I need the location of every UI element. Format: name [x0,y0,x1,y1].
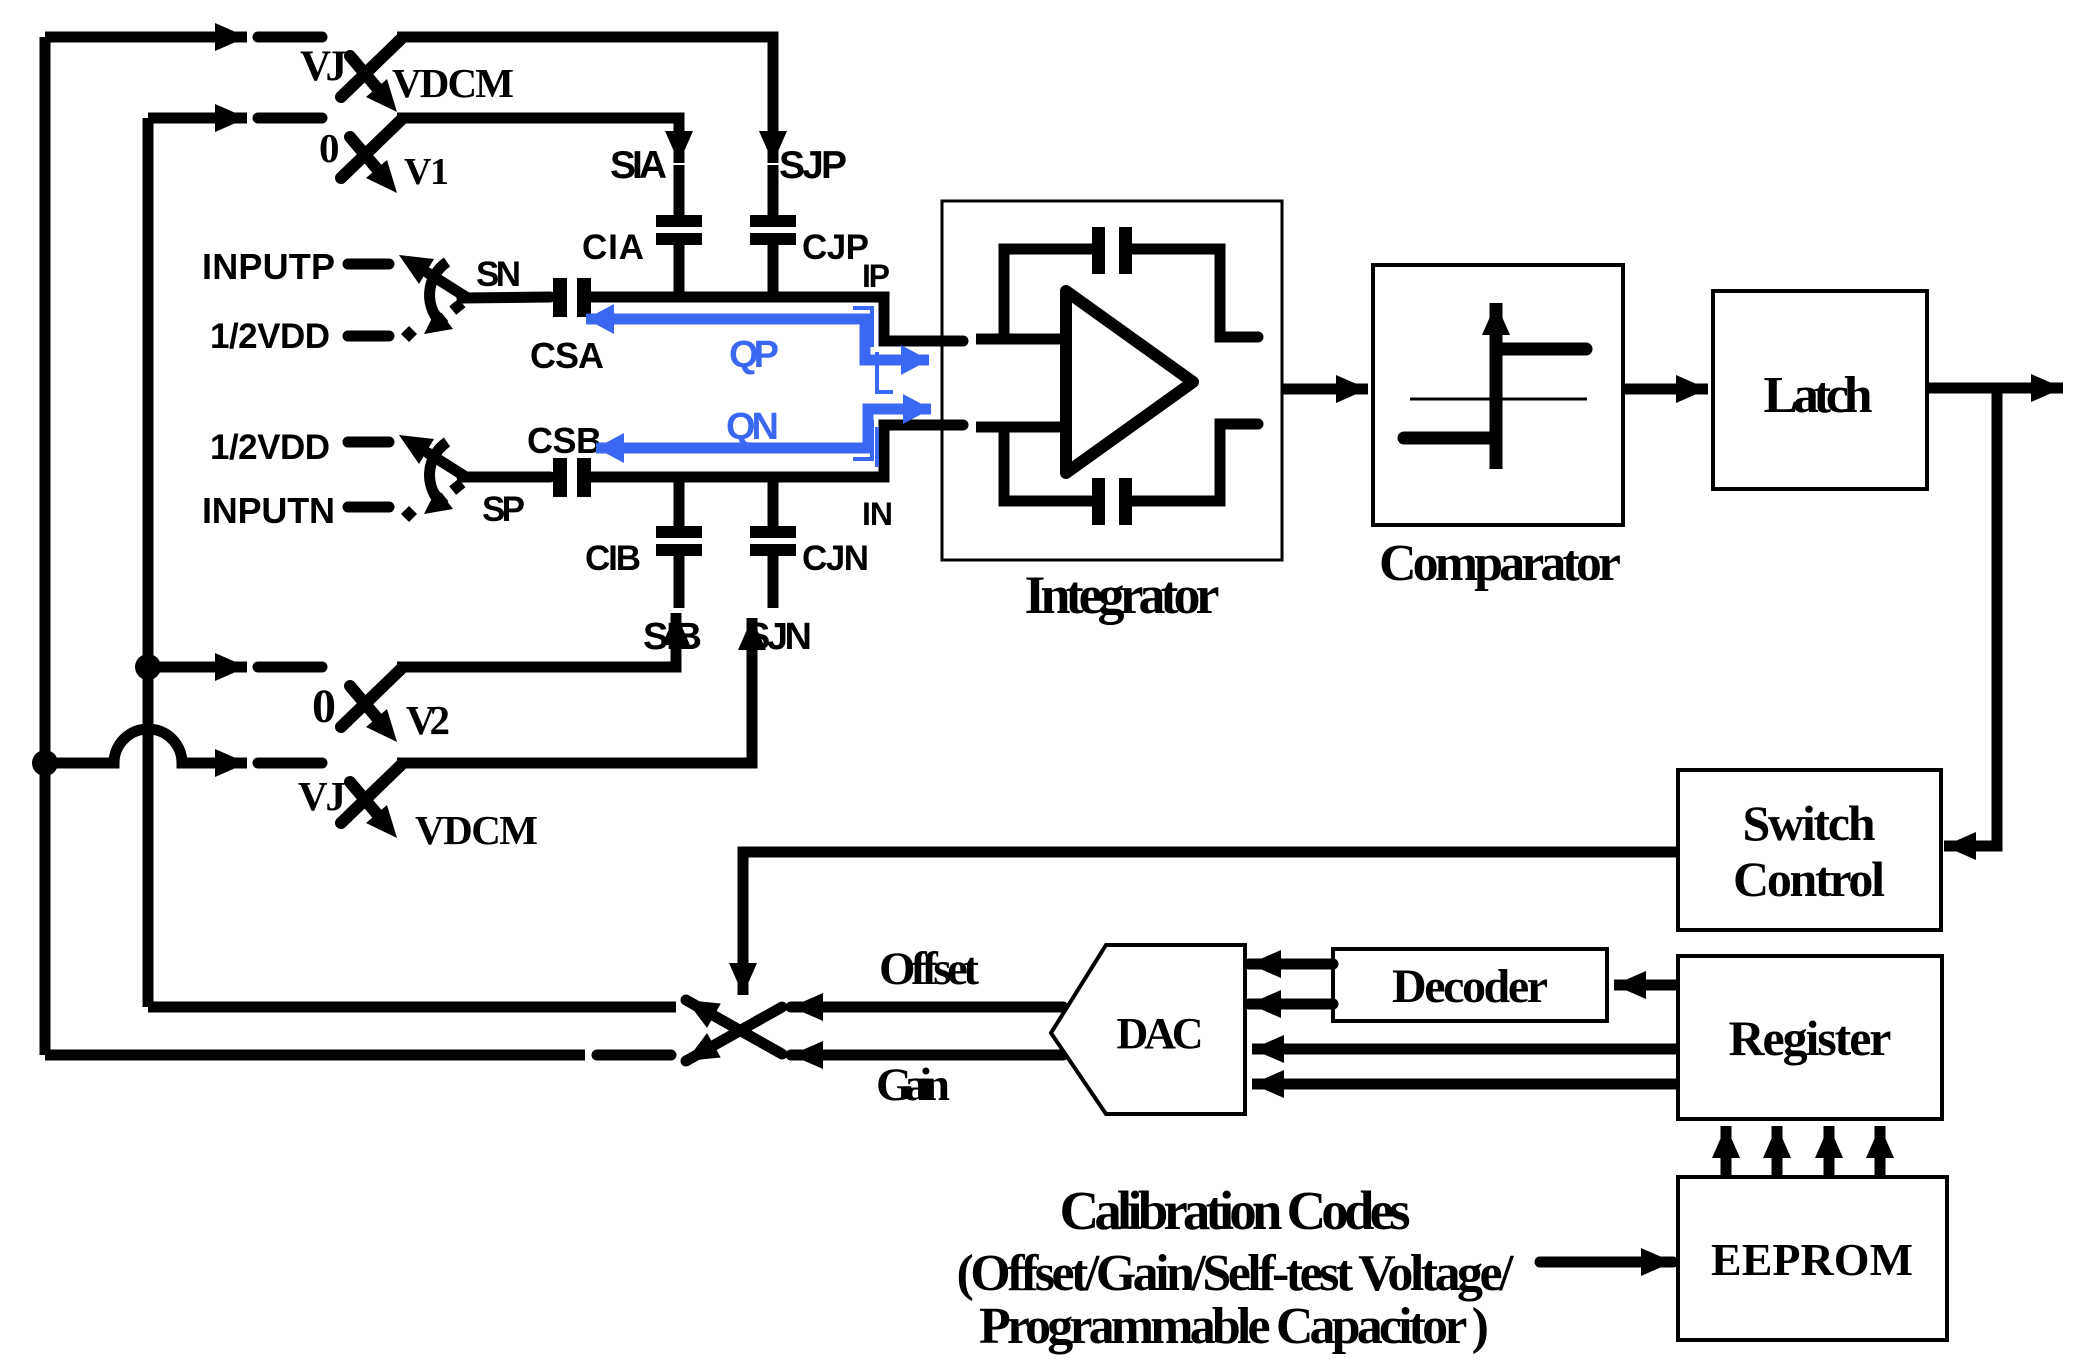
capacitor top feedback [1092,227,1132,274]
svg-text:IP: IP [862,258,890,294]
wire: row2 output to SIA [397,118,679,163]
capacitor CIA [656,165,702,294]
blue arrow QN shadow outline [853,420,872,459]
wire: P rail stub into integrator [976,334,1066,345]
svg-text:SP: SP [482,490,525,529]
wire: V2 output to SIB [397,613,676,667]
wire: left inner vertical rail B [143,118,154,1007]
wire: EEPROM to register arrow 1 [1721,1126,1732,1175]
switch SN: dashed arrow to 1/2VDD [441,303,462,320]
svg-text:Control: Control [1733,851,1885,907]
wire: 1/2VDD contact bar [348,331,389,342]
svg-text:INPUTP: INPUTP [202,246,335,287]
svg-text:SN: SN [476,255,521,294]
wire: N rail stub into integrator [976,422,1066,433]
svg-text:QN: QN [726,406,779,448]
capacitor CJP [750,165,796,294]
wire: decoder to DAC arrow 1 [1249,959,1333,970]
switch S(VJ/VDCM) top: throw diagonal [341,39,401,97]
switch S(0/V1): fixed contact bar [258,113,322,124]
wire: register to decoder arrow [1614,980,1678,991]
switch S(0/V2): throw diagonal [341,669,401,727]
wire: register to DAC arrow 4 [1252,1079,1678,1090]
svg-text:EEPROM: EEPROM [1711,1234,1913,1285]
node: junction dot on rail A [32,750,58,776]
capacitor CIB [656,482,702,608]
wire: Gain output arrow from DAC [791,1050,1063,1061]
svg-text:SIA: SIA [610,144,667,187]
wire: EEPROM to register arrow 2 [1772,1126,1783,1175]
switch S(VJ/VDCM) bottom: throw diagonal [341,765,401,823]
comparator box [1373,265,1623,525]
wire: crossover diagonal to upper-left [686,1000,782,1054]
svg-text:Latch: Latch [1764,367,1873,424]
svg-text:VJ: VJ [300,43,347,90]
svg-text:V1: V1 [404,151,449,193]
svg-text:Integrator: Integrator [1025,565,1220,625]
wire: row1 feed from rail A with arrowhead [45,32,247,43]
wire: latch output arrow [1927,383,2063,394]
comparator icon: thin threshold line [1410,398,1587,401]
svg-text:Switch: Switch [1743,795,1876,851]
wire: lower rail contact bar [597,1050,671,1061]
svg-text:CJP: CJP [802,228,869,267]
wire: EEPROM to register arrow 4 [1875,1126,1886,1175]
switch control box [1678,770,1941,930]
comparator icon: low level segment [1404,432,1496,445]
wire: row1 output to SJP [397,37,773,163]
wire: top feedback left rail [1004,249,1092,339]
wire: latch output branch down to switch control [1944,388,1997,846]
capacitor CJN [750,482,796,608]
svg-text:DAC: DAC [1117,1009,1204,1058]
switch S(0/V1): throw diagonal [341,120,401,178]
svg-text:Register: Register [1729,1010,1892,1066]
svg-text:0: 0 [312,680,336,733]
blue arrow QP [586,319,929,360]
wire: top feedback right side [1132,249,1258,337]
wire: V2 row feed from dot on rail B [148,662,247,673]
svg-text:1/2VDD: 1/2VDD [210,428,330,467]
wire: lower crossover rail from rail A [45,1050,585,1061]
svg-text:SJP: SJP [779,144,847,187]
integrator box U1 [942,201,1282,560]
switch SP: rotation arc [430,442,447,505]
wire: left outer vertical rail A [40,37,51,1055]
svg-text:V2: V2 [406,697,450,743]
wire: switch control feedback to crossover [743,852,1678,995]
wire: comparator to latch arrow [1623,384,1708,395]
svg-text:CIB: CIB [585,539,641,578]
svg-text:Comparator: Comparator [1379,535,1621,592]
comparator icon: vertical axis with arrow [1490,303,1503,469]
comparator icon: high level segment [1496,343,1586,356]
wire: INPUTN contact bar [348,502,389,513]
svg-text:CIA: CIA [582,228,644,267]
wire: P rail from CSA to integrator with step [591,297,963,341]
svg-text:Gain: Gain [876,1059,950,1111]
wire: decoder to DAC arrow 2 [1249,999,1333,1010]
svg-text:CSB: CSB [527,420,602,461]
switch S(0/V2): cross stroke with arrow [350,686,383,725]
blue arrow QN [596,409,931,448]
svg-text:QP: QP [729,334,779,376]
switch S(0/V2): fixed contact bar [258,662,322,673]
switch SN: solid arrow to INPUTP [428,273,466,297]
wire: crossover diagonal to lower-left [686,1007,782,1061]
svg-text:CJN: CJN [802,539,869,578]
switch S(VJ/VDCM) top: cross stroke with arrow [350,56,383,95]
EEPROM box [1678,1177,1947,1340]
capacitor CSA [553,278,591,317]
wire: VDCM2 row feed from dot on rail A with hop over rail B [45,729,247,763]
wire: row2 feed from rail B with arrowhead [148,113,247,124]
svg-text:INPUTN: INPUTN [202,490,335,531]
switch S(VJ/VDCM) top: fixed contact bar [258,32,322,43]
svg-text:VDCM: VDCM [415,807,538,853]
switch SN: rotation arc [430,262,447,325]
wire: calibration codes to EEPROM arrow [1540,1257,1673,1268]
wire: SP common to CSB [462,472,550,483]
DAC pentagon [1051,945,1245,1114]
switch S(VJ/VDCM) bottom: fixed contact bar [258,758,322,769]
svg-text:CSA: CSA [530,335,604,376]
wire: bottom feedback left rail [1004,427,1092,501]
decoder box [1333,949,1607,1021]
switch S(VJ/VDCM) bottom: cross stroke with arrow [350,782,383,821]
wire: Offset output arrow from DAC [791,1002,1063,1013]
switch SP: dashed arrow to INPUTN [441,483,462,500]
svg-text:Decoder: Decoder [1392,960,1548,1013]
wire: upper crossover rail from rail B [148,1002,676,1013]
svg-text:Offset: Offset [879,943,979,995]
svg-text:1/2VDD: 1/2VDD [210,317,330,356]
wire: register to DAC arrow 3 [1252,1044,1678,1055]
blue arrow QP shadow outline [853,308,872,347]
svg-text:VDCM: VDCM [392,60,514,106]
capacitor bottom feedback [1092,478,1132,525]
node: junction dot on rail B [135,654,161,680]
capacitor CSB [553,458,591,497]
latch box [1713,291,1927,489]
wire: VDCM2 output to SJN [397,618,752,763]
svg-text:Calibration Codes: Calibration Codes [1060,1180,1411,1241]
switch S(0/V1): cross stroke with arrow [350,137,383,176]
svg-text:IN: IN [862,496,893,532]
svg-text:(Offset/Gain/Self-test Voltage: (Offset/Gain/Self-test Voltage/ [957,1245,1515,1302]
wire: EEPROM to register arrow 3 [1824,1126,1835,1175]
svg-text:0: 0 [319,125,340,171]
svg-text:VJ: VJ [298,773,346,819]
wire: INPUTP contact bar [348,259,389,270]
register box [1678,956,1942,1119]
op-amp triangle [1066,291,1193,473]
wire: SN common to CSA [462,297,550,298]
wire: integrator to comparator arrow [1282,384,1368,395]
wire: N rail from CSB to integrator with step [591,425,963,477]
wire: 1/2VDD lower contact bar [348,437,389,448]
switch SP: solid arrow to 1/2VDD [428,453,466,477]
wire: bottom feedback right side [1132,424,1258,501]
svg-text:Programmable Capacitor ): Programmable Capacitor ) [979,1298,1489,1355]
